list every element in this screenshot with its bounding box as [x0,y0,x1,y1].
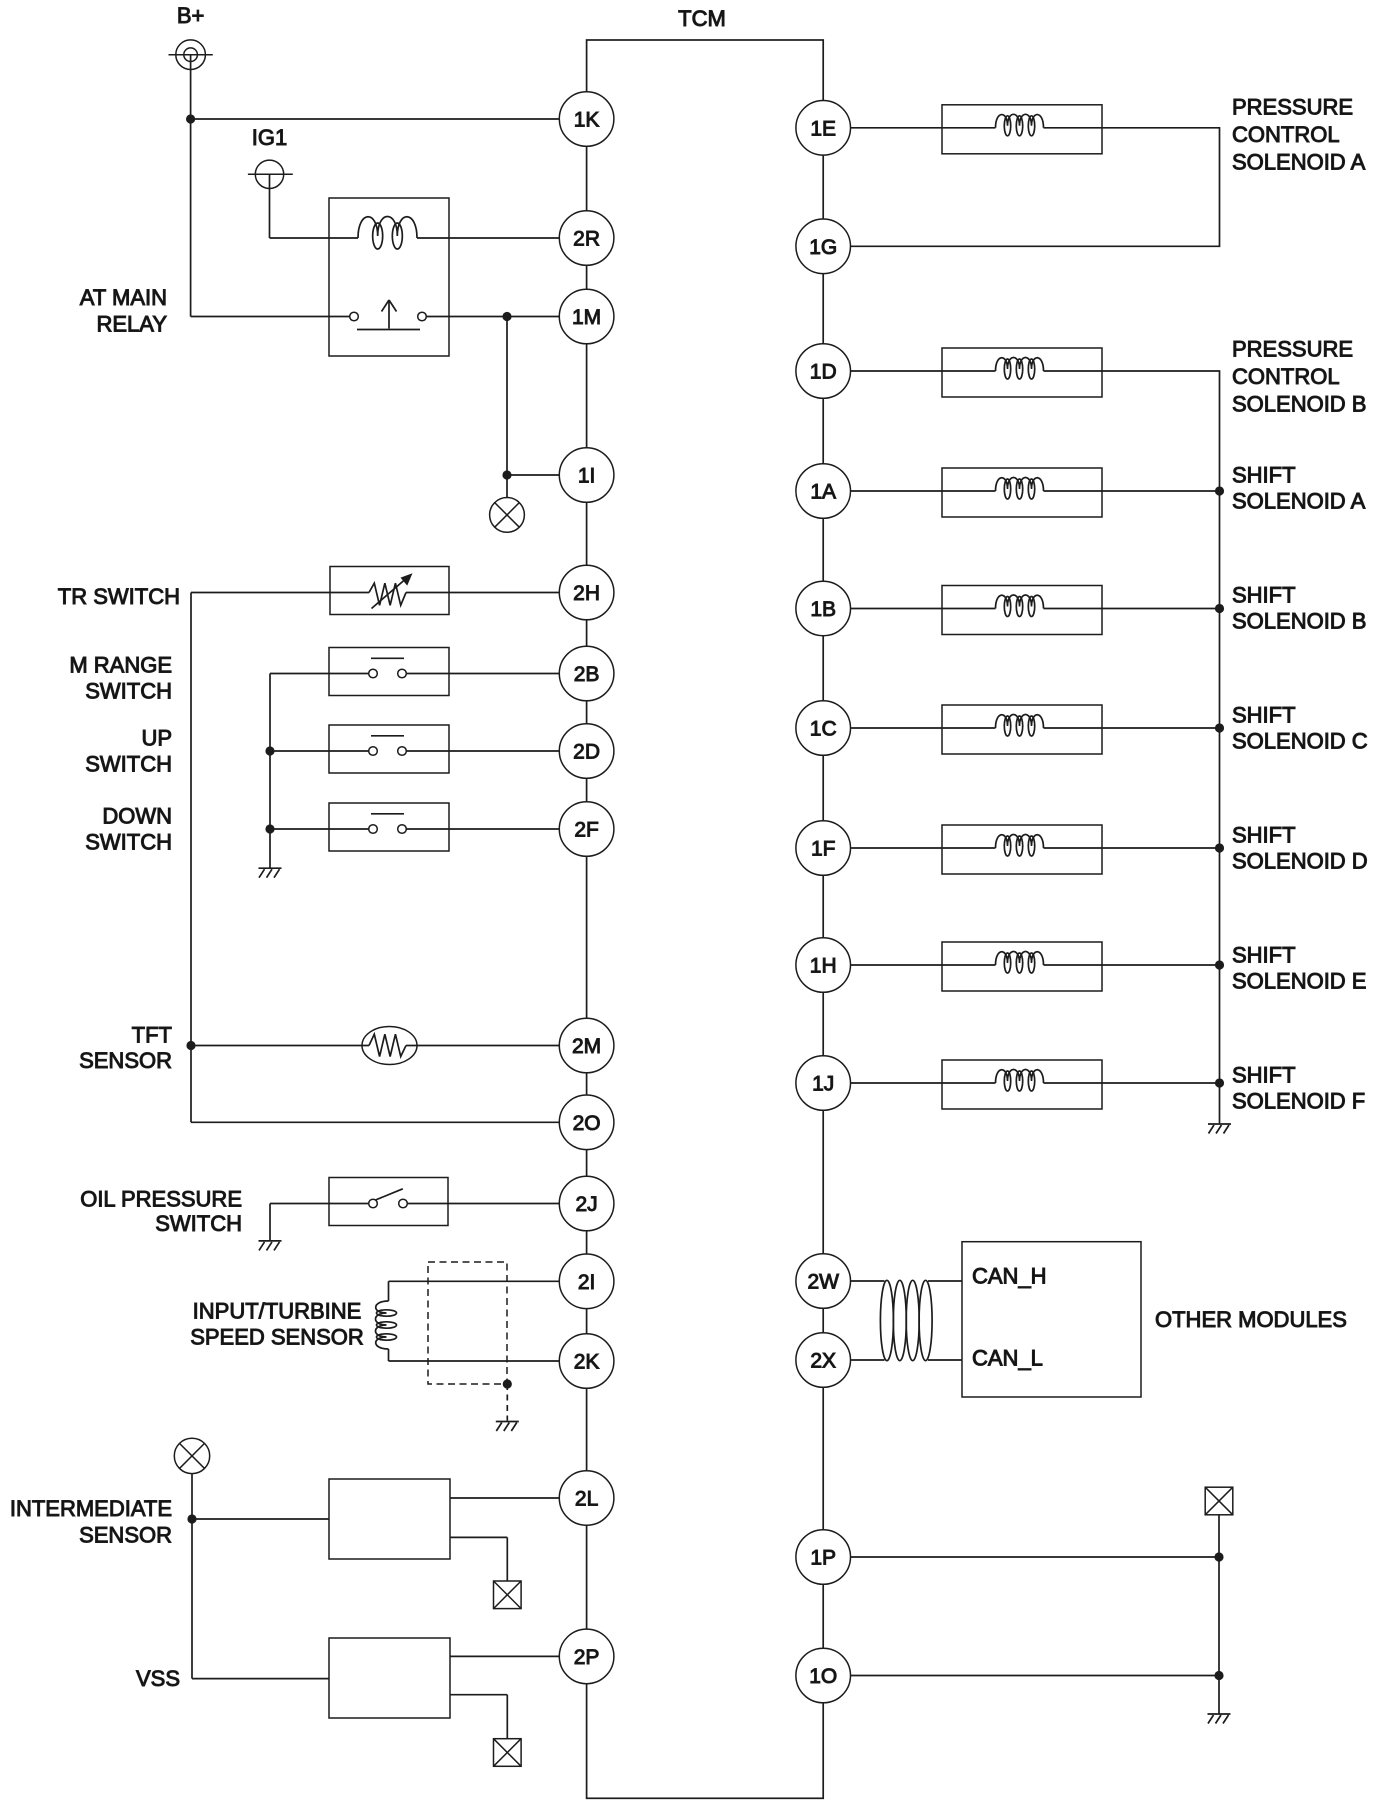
svg-text:1J: 1J [812,1073,834,1096]
svg-text:INTERMEDIATE: INTERMEDIATE [10,1496,172,1521]
svg-text:VSS: VSS [136,1666,180,1691]
svg-text:2H: 2H [573,582,600,605]
svg-text:2W: 2W [807,1271,839,1294]
svg-text:SHIFT: SHIFT [1232,703,1296,728]
svg-text:SWITCH: SWITCH [155,1211,242,1236]
svg-text:2F: 2F [574,819,599,842]
svg-text:M RANGE: M RANGE [69,653,172,678]
svg-text:SOLENOID F: SOLENOID F [1232,1089,1365,1114]
svg-text:INPUT/TURBINE: INPUT/TURBINE [193,1299,362,1324]
svg-text:1O: 1O [809,1665,837,1688]
svg-text:CONTROL: CONTROL [1232,364,1340,389]
svg-text:1H: 1H [810,955,837,978]
svg-text:1D: 1D [810,361,837,384]
svg-text:PRESSURE: PRESSURE [1232,337,1353,362]
svg-text:SWITCH: SWITCH [85,679,172,704]
svg-text:B+: B+ [177,3,205,28]
svg-text:SOLENOID E: SOLENOID E [1232,969,1366,994]
svg-text:TCM: TCM [678,6,726,31]
svg-text:CAN_L: CAN_L [972,1346,1043,1371]
svg-text:2P: 2P [574,1646,600,1669]
svg-text:1B: 1B [810,598,836,621]
svg-text:2K: 2K [574,1351,600,1374]
svg-text:RELAY: RELAY [96,312,167,337]
svg-text:2X: 2X [810,1350,836,1373]
svg-text:SENSOR: SENSOR [79,1048,172,1073]
svg-text:SWITCH: SWITCH [85,752,172,777]
svg-text:OIL PRESSURE: OIL PRESSURE [80,1187,242,1212]
svg-text:1M: 1M [572,306,601,329]
svg-text:SOLENOID A: SOLENOID A [1232,150,1366,175]
svg-text:PRESSURE: PRESSURE [1232,95,1353,120]
svg-text:TFT: TFT [132,1023,172,1048]
svg-text:1I: 1I [578,465,596,488]
svg-text:2J: 2J [576,1193,598,1216]
svg-text:2R: 2R [573,228,600,251]
svg-text:CONTROL: CONTROL [1232,122,1340,147]
svg-text:1C: 1C [810,718,837,741]
svg-text:2L: 2L [575,1488,598,1511]
svg-text:SOLENOID D: SOLENOID D [1232,849,1368,874]
svg-text:2D: 2D [573,741,600,764]
svg-text:1A: 1A [810,481,836,504]
svg-text:1P: 1P [810,1547,836,1570]
svg-text:2O: 2O [573,1112,601,1135]
svg-text:1K: 1K [574,109,600,132]
svg-text:1E: 1E [810,117,836,140]
svg-text:SHIFT: SHIFT [1232,1063,1296,1088]
svg-text:2B: 2B [574,663,600,686]
svg-text:CAN_H: CAN_H [972,1264,1047,1289]
svg-text:SOLENOID C: SOLENOID C [1232,729,1368,754]
svg-text:SPEED SENSOR: SPEED SENSOR [190,1325,364,1350]
svg-text:SHIFT: SHIFT [1232,463,1296,488]
svg-text:SWITCH: SWITCH [85,830,172,855]
svg-text:OTHER MODULES: OTHER MODULES [1155,1307,1347,1332]
svg-text:AT MAIN: AT MAIN [80,285,167,310]
svg-text:SOLENOID B: SOLENOID B [1232,609,1366,634]
svg-text:DOWN: DOWN [102,804,172,829]
svg-text:SOLENOID A: SOLENOID A [1232,489,1366,514]
svg-text:1G: 1G [809,236,837,259]
svg-text:SHIFT: SHIFT [1232,823,1296,848]
svg-text:UP: UP [141,726,172,751]
svg-text:TR SWITCH: TR SWITCH [58,584,180,609]
svg-text:SHIFT: SHIFT [1232,583,1296,608]
svg-text:IG1: IG1 [252,125,287,150]
svg-text:SOLENOID B: SOLENOID B [1232,392,1366,417]
svg-text:2M: 2M [572,1035,601,1058]
svg-text:1F: 1F [811,838,836,861]
svg-text:2I: 2I [578,1271,596,1294]
svg-text:SHIFT: SHIFT [1232,943,1296,968]
svg-text:SENSOR: SENSOR [79,1523,172,1548]
